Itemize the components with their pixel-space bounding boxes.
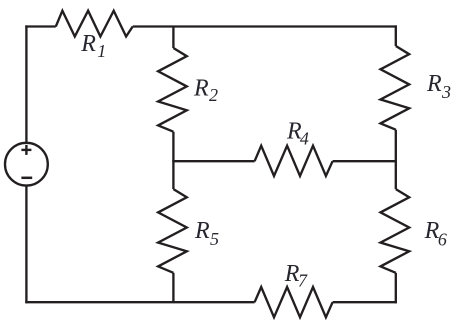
svg-text:R: R [194,218,210,244]
resistor R6 [381,189,410,273]
voltage source minus sign [21,177,32,180]
wire right rail between R3 and node [395,130,397,162]
label R1 [80,31,106,61]
voltage source V1 [5,143,48,186]
wire middle horizontal from R4 to right rail [333,160,397,162]
label R5 [194,218,219,249]
resistor R7 [255,287,333,317]
svg-text:1: 1 [97,41,106,61]
label R2 [193,75,218,105]
resistor R1 [56,11,133,37]
svg-text:2: 2 [209,85,218,105]
svg-text:5: 5 [210,229,219,249]
label R7 [284,261,308,291]
wire middle rail bottom [172,273,174,302]
wire right rail bottom [395,273,397,304]
label R4 [286,118,309,148]
wire bottom from R7 to right corner [333,301,397,303]
svg-text:R: R [426,71,442,97]
svg-text:R: R [80,31,96,57]
wire middle rail top [172,27,174,49]
svg-text:7: 7 [298,271,308,291]
resistor R2 [158,48,187,132]
resistor R4 [255,146,333,176]
wire top from left corner to R1 [25,25,56,27]
svg-text:4: 4 [300,128,309,148]
wire top from R1 to right corner [133,25,397,27]
wire right rail top [395,25,397,46]
resistor R3 [381,46,410,130]
wire middle rail between node and R5 [172,161,174,189]
wire right rail between node and R6 [395,161,397,189]
wire left rail lower [25,186,27,304]
wire bottom from left corner to R7 [25,301,254,303]
wire middle horizontal from node to R4 [172,160,254,162]
svg-text:6: 6 [438,229,447,249]
wire middle rail between R2 and node [172,132,174,162]
voltage source plus sign [21,149,31,151]
resistor R5 [158,189,187,273]
svg-text:R: R [193,75,209,101]
label R6 [424,218,447,250]
svg-text:3: 3 [441,82,451,102]
wire left rail upper [25,25,27,142]
label R3 [426,71,451,102]
